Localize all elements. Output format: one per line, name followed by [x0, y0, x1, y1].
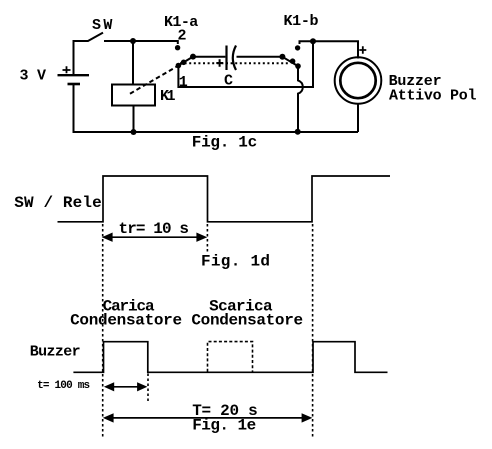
svg-text:SW / Rele: SW / Rele [14, 194, 102, 212]
capacitor C straight plate [225, 46, 227, 71]
svg-text:Fig. 1c: Fig. 1c [192, 133, 257, 151]
dashed discharge pulse [208, 342, 253, 372]
wire top right node to buzzer and K1-b fixed contact 2 [300, 41, 359, 58]
K1-b fixed contact 2 dot [295, 45, 300, 50]
K1-a armature mid dot [181, 60, 187, 66]
K1 armature mechanical link (dashed) [130, 66, 178, 94]
svg-text:Fig. 1e: Fig. 1e [192, 417, 256, 435]
capacitor polarity plus [216, 59, 223, 66]
arrow tr right head [196, 233, 207, 242]
switch SW blade [88, 33, 104, 42]
buzzer outer ring [335, 57, 382, 104]
svg-text:2: 2 [178, 28, 187, 45]
wire relay coil K1 to bottom rail [133, 106, 135, 133]
arrow tr shaft [107, 236, 202, 238]
waveform SW/Rele [58, 176, 391, 222]
svg-text:C: C [224, 73, 233, 90]
arrow t right head [137, 382, 147, 391]
K1-b armature contact arm [282, 57, 298, 66]
K1-a fixed contact 2 dot [175, 45, 180, 50]
wire K1-a armature to capacitor C [193, 56, 226, 58]
wire buzzer bottom to rail [357, 104, 359, 132]
released armature position (dotted) [180, 62, 289, 64]
svg-text:Attivo Pol: Attivo Pol [389, 87, 477, 104]
dotted guide line left (t0) [102, 224, 104, 437]
svg-text:K1-b: K1-b [284, 13, 319, 30]
svg-text:3 V: 3 V [20, 68, 47, 85]
K1-a armature end dot [190, 54, 196, 60]
wire K1-a contact 1 loop to top right node [178, 41, 313, 87]
arrow t left head [104, 382, 114, 391]
dashed guide below buzzer pulse [147, 374, 149, 403]
junction dot K1-b wire to rail [295, 129, 301, 135]
arrow tr left head [102, 233, 113, 242]
wire switch to K1-a fixed contact 2 [104, 41, 178, 44]
junction dot switch node [130, 38, 136, 44]
svg-text:1: 1 [179, 74, 188, 91]
junction dot top right node [310, 38, 316, 44]
relay coil K1 [112, 85, 155, 106]
buzzer inner ring [340, 63, 375, 98]
svg-text:K1: K1 [160, 88, 176, 105]
buzzer polarity plus [359, 46, 366, 53]
K1-b armature end dot [279, 54, 285, 60]
arrow T shaft [108, 417, 306, 419]
arrow t shaft [110, 386, 141, 388]
capacitor C curved plate [233, 46, 236, 71]
battery 3V positive plate [58, 74, 90, 76]
junction dot K1 coil to rail [131, 129, 137, 135]
wire battery positive to switch [74, 41, 89, 75]
dotted guide line period end [312, 224, 314, 437]
svg-text:Condensatore: Condensatore [70, 312, 182, 330]
svg-text:Condensatore: Condensatore [191, 312, 303, 330]
dotted guide line relay off [206, 224, 208, 252]
K1-b contact 1 dot [295, 63, 301, 69]
battery polarity plus [63, 66, 71, 73]
wire K1-b contact 1 to bottom rail with hop [298, 66, 303, 132]
wire capacitor to K1-b armature [237, 56, 283, 58]
svg-text:Buzzer: Buzzer [30, 344, 81, 361]
arrow T right head [302, 413, 313, 422]
waveform Buzzer [73, 342, 387, 373]
arrow T left head [103, 413, 114, 422]
wire battery negative to bottom rail [73, 85, 75, 132]
battery 3V negative plate [68, 83, 81, 86]
K1-a armature contact arm [178, 57, 193, 66]
svg-text:t= 100 ms: t= 100 ms [37, 380, 90, 392]
wire bottom rail [73, 131, 359, 133]
K1-a contact 1 dot [176, 63, 182, 69]
wire node A down to relay coil K1 [132, 41, 134, 85]
svg-text:tr= 10 s: tr= 10 s [119, 220, 190, 238]
svg-text:Fig. 1d: Fig. 1d [201, 252, 270, 270]
K1-b armature mid dot [290, 58, 296, 64]
